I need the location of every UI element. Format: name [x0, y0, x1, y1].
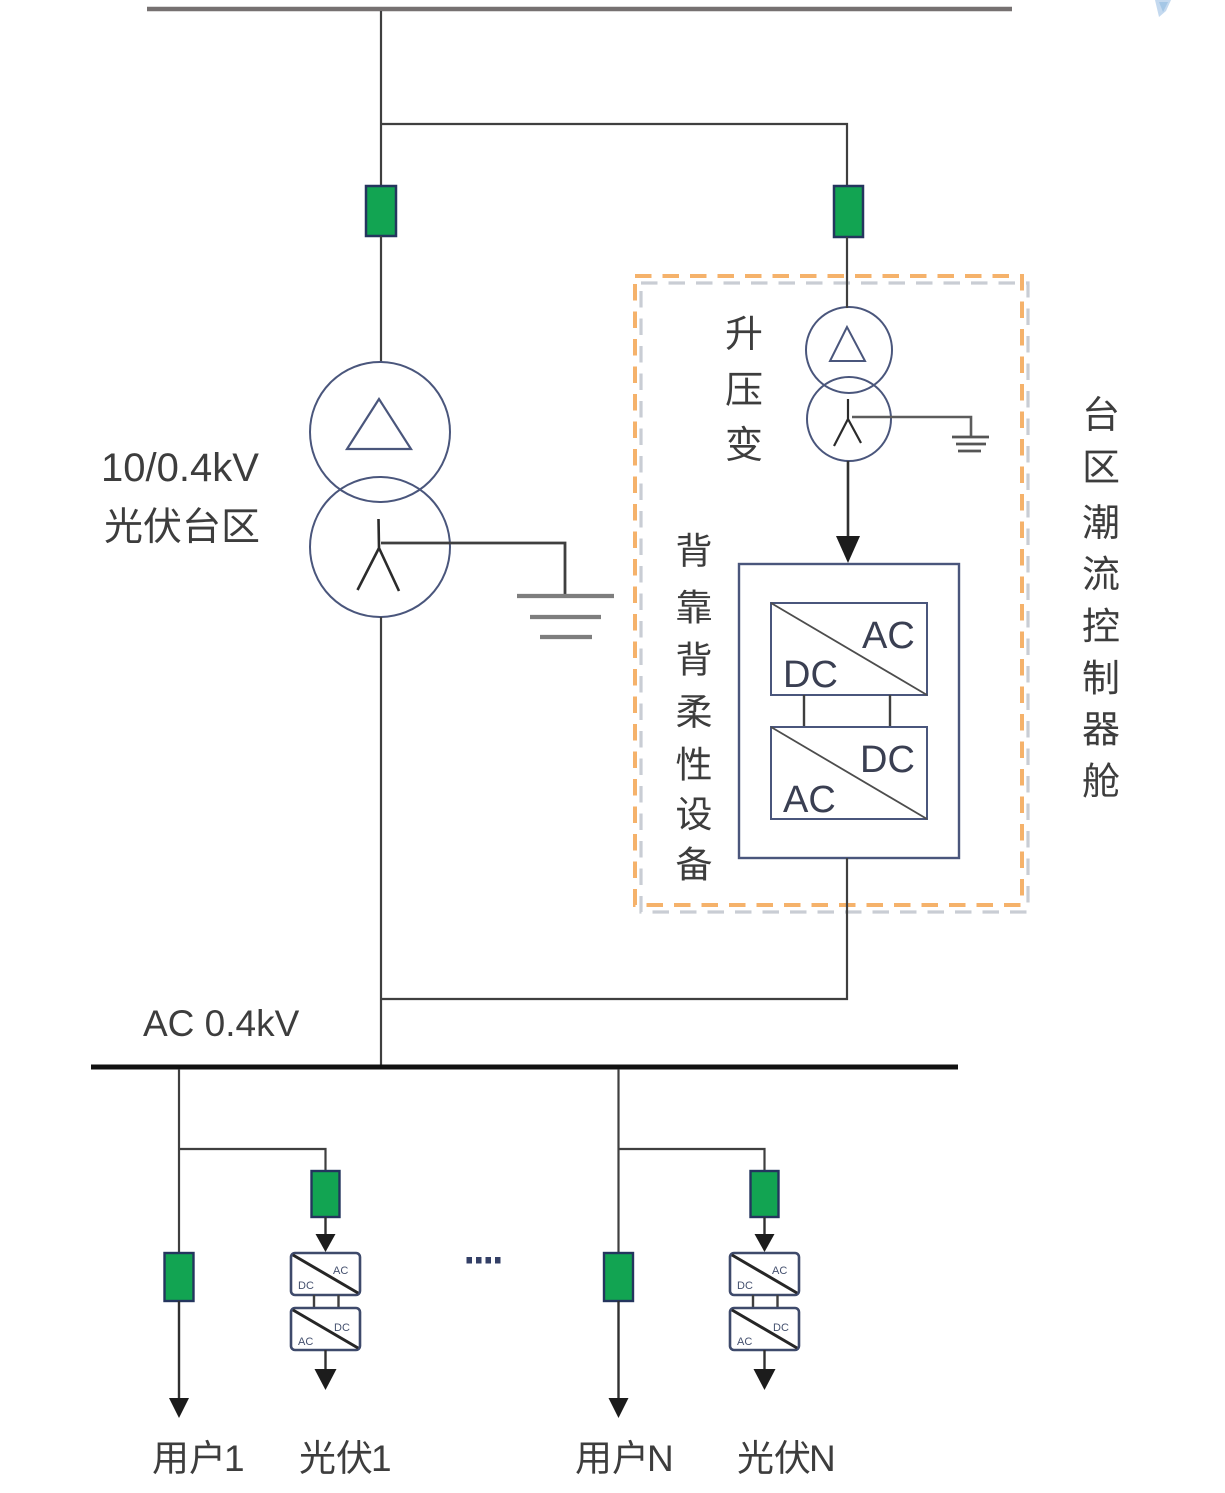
transformer T2 wye symbol	[834, 399, 861, 446]
svg-text:AC 0.4kV: AC 0.4kV	[143, 1003, 300, 1044]
svg-text:AC: AC	[862, 615, 915, 657]
wire + arrow to user load	[617, 1301, 619, 1403]
wire + arrow out of PV inverter	[763, 1350, 765, 1372]
wire + arrow into PV inverter	[763, 1217, 765, 1238]
label step-up transformer 升压变 (vertical)	[726, 316, 761, 461]
transformer T2 delta symbol	[830, 327, 865, 361]
svg-text:1: 1	[224, 1438, 245, 1479]
PV inverter stage 2 (AC/DC)	[291, 1308, 360, 1350]
wire: branch tee to right	[381, 124, 847, 188]
svg-text:AC: AC	[737, 1336, 752, 1348]
svg-text:DC: DC	[298, 1280, 314, 1292]
breaker (green) on PV feeder	[312, 1171, 340, 1217]
flexible device cabin enclosure (orange dashed)	[635, 276, 1022, 905]
svg-text:N: N	[809, 1438, 836, 1479]
feeder branch wire to PV	[179, 1149, 326, 1171]
dc link stubs	[313, 1295, 315, 1308]
flexible device cabin enclosure shadow (gray dashed)	[641, 283, 1028, 912]
wire: T1 neutral to ground	[381, 543, 565, 594]
breaker (green) on user feeder	[165, 1253, 194, 1301]
label PV	[300, 1440, 371, 1474]
transformer T2 secondary winding (circle)	[807, 377, 891, 461]
svg-text:10/0.4kV: 10/0.4kV	[101, 446, 259, 490]
PV inverter stage 2 (AC/DC)	[730, 1308, 799, 1350]
svg-text:AC: AC	[772, 1265, 787, 1277]
feeder branch wire to PV	[619, 1149, 765, 1171]
wire: U1 output to LV bus	[382, 858, 847, 999]
wire + arrow into PV inverter	[324, 1217, 326, 1238]
wire + arrow to user load	[178, 1301, 180, 1403]
label PV substation 光伏台区	[105, 507, 258, 543]
PV inverter stage 1 (DC/AC)	[291, 1253, 360, 1295]
svg-text:1: 1	[371, 1438, 392, 1479]
converter U1b (AC/DC) box	[771, 727, 927, 819]
svg-text:AC: AC	[298, 1336, 313, 1348]
svg-text:AC: AC	[333, 1265, 348, 1277]
breaker (green) on user feeder	[604, 1253, 633, 1301]
ground (T2 neutral)	[952, 437, 989, 451]
converter U1b diagonal	[771, 727, 927, 819]
label 背靠背柔性设备 (vertical)	[677, 533, 712, 881]
svg-text:AC: AC	[783, 779, 836, 821]
breaker QF2 (green, closed)	[834, 186, 863, 237]
label PV	[738, 1440, 809, 1474]
svg-text:DC: DC	[334, 1322, 350, 1334]
artifact blue mark top right	[1155, 0, 1171, 17]
svg-text:DC: DC	[773, 1322, 789, 1334]
back-to-back converter U1 outer box	[739, 564, 959, 858]
transformer T1 wye symbol	[358, 519, 400, 591]
svg-text:DC: DC	[860, 739, 915, 781]
converter U1a diagonal	[771, 603, 927, 695]
feeder wire: bus to user load	[617, 1069, 619, 1253]
wire: QF2 to T2	[846, 237, 848, 308]
transformer T2 primary winding (circle)	[806, 307, 892, 393]
wire with arrow: T2 to converter U1	[847, 461, 850, 540]
LV bus 0.4kV	[91, 1065, 958, 1070]
svg-text:N: N	[647, 1438, 674, 1479]
svg-text:DC: DC	[737, 1280, 753, 1292]
converter U1a (DC/AC) box	[771, 603, 927, 695]
transformer T1 primary winding (circle)	[310, 362, 450, 502]
wire + arrow out of PV inverter	[324, 1350, 326, 1372]
svg-text:DC: DC	[783, 654, 838, 696]
wire: bus to breaker QF1	[380, 11, 382, 188]
transformer T1 delta symbol	[347, 399, 411, 449]
dc-link wires	[803, 695, 805, 727]
label user	[576, 1440, 643, 1474]
ground (T1 neutral)	[517, 596, 614, 637]
wire: T2 neutral to ground	[852, 417, 971, 436]
dots: more feeders	[467, 1257, 501, 1264]
wire: T1 secondary down to LV bus	[380, 617, 382, 1065]
wire: QF1 to transformer T1	[380, 236, 382, 362]
label user	[153, 1440, 220, 1474]
label 台区潮流控制器舱 (vertical)	[1083, 396, 1119, 798]
feeder wire: bus to user load	[178, 1069, 180, 1253]
transformer T1 secondary winding (circle)	[310, 477, 450, 617]
breaker (green) on PV feeder	[751, 1171, 779, 1217]
breaker QF1 (green, closed)	[366, 186, 396, 236]
PV inverter stage 1 (DC/AC)	[730, 1253, 799, 1295]
10kV incoming bus	[147, 7, 1012, 12]
arrowhead into U1	[836, 536, 860, 563]
dc link stubs	[752, 1295, 754, 1308]
